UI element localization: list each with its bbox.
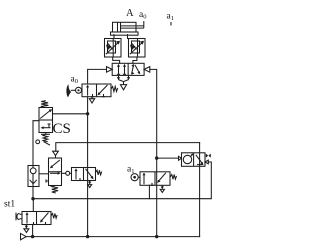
svg-text:st1: st1 — [4, 200, 15, 210]
svg-text:a1: a1 — [127, 164, 134, 175]
svg-text:a0: a0 — [71, 75, 78, 86]
svg-text:A: A — [126, 8, 134, 19]
svg-text:a1: a1 — [167, 12, 174, 23]
svg-text:CS: CS — [53, 121, 71, 137]
svg-text:a0: a0 — [139, 10, 146, 21]
